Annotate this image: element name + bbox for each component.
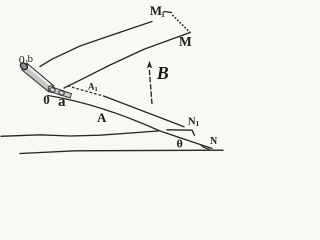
wire: front rail a to M: [64, 33, 190, 89]
svg-text:0: 0: [43, 92, 50, 107]
wire: dash right of M1: [164, 12, 172, 13]
svg-text:a: a: [58, 94, 66, 110]
svg-text:N: N: [210, 136, 218, 147]
wire: dotted line M1 to M: [173, 16, 190, 33]
svg-text:b: b: [28, 53, 34, 65]
rail end stub (upper): [49, 87, 63, 96]
wire: N1 foot with tick: [167, 130, 195, 135]
wire: incline rail O to N: [48, 96, 212, 149]
wire: back rail O1 to M1: [40, 22, 152, 67]
rail end stub (lower): [58, 90, 71, 98]
wire: ground line back: [1, 131, 158, 136]
wire: incline rail to N1 (dashed near rod): [68, 86, 105, 97]
svg-text:A: A: [97, 110, 107, 125]
angle arc at N: [201, 145, 210, 149]
field arrow B: [147, 61, 152, 104]
svg-text:M: M: [179, 34, 192, 49]
svg-text:θ: θ: [177, 137, 183, 151]
rod ab (cylinder): [19, 61, 57, 93]
svg-text:B: B: [156, 63, 169, 83]
wire: ground line front: [20, 150, 223, 153]
